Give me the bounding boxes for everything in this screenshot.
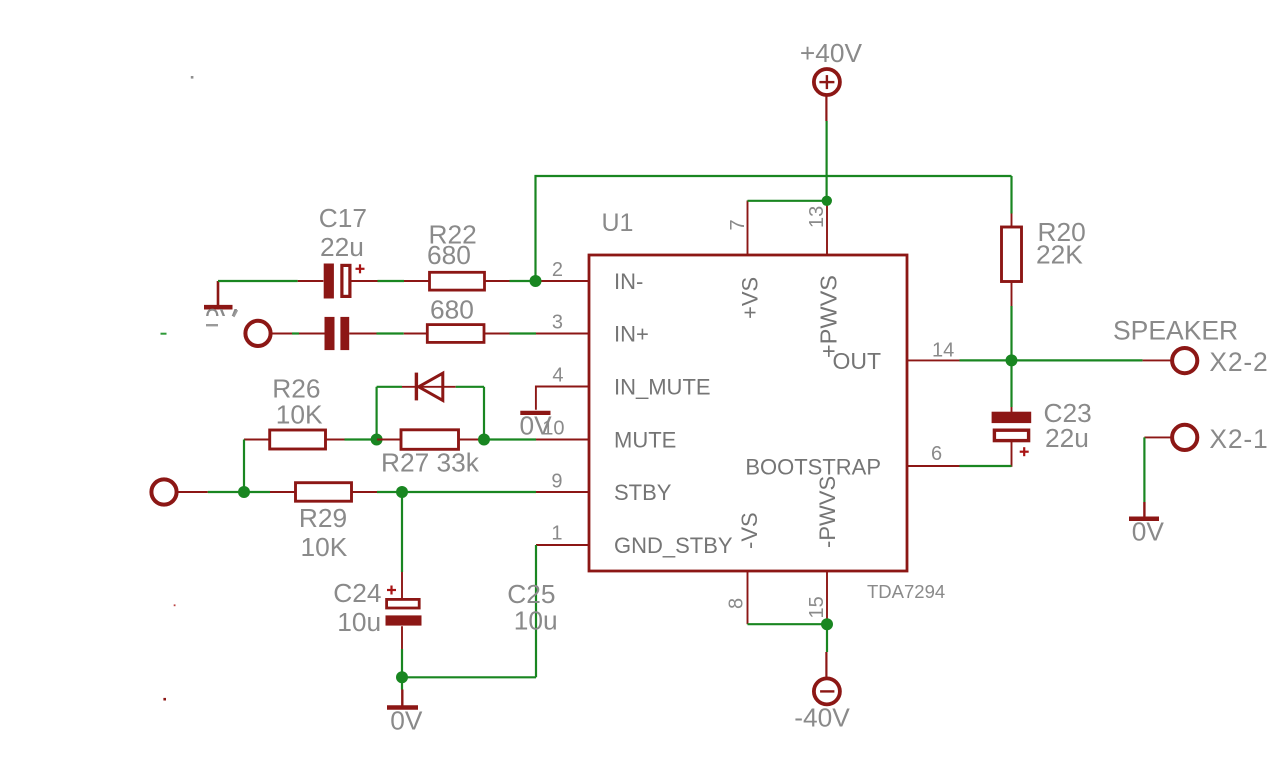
op-amp U1 TDA7294 body <box>589 255 907 571</box>
svg-text:X2-2: X2-2 <box>1209 347 1268 377</box>
pin 10 MUTE stub <box>536 439 589 441</box>
connector label X2-1 <box>1209 424 1268 454</box>
wire R26 to mute node (green) <box>345 438 378 440</box>
capacitor C23 22u (polarized) <box>992 412 1032 457</box>
R22 name label <box>429 219 477 249</box>
wire C23 top lead (maroon) <box>1011 407 1013 412</box>
svg-text:10K: 10K <box>276 399 323 429</box>
resistor R26 10K <box>270 430 326 449</box>
wire pad to stby node (green) <box>208 491 244 493</box>
pin number 9 <box>551 471 562 493</box>
svg-text:680: 680 <box>427 240 471 270</box>
wire diode top right (green) <box>456 386 484 388</box>
pin 7 +VS stub <box>747 201 749 256</box>
pin 1 GND_STBY stub <box>536 544 589 546</box>
svg-text:+VS: +VS <box>738 277 763 319</box>
connector pad (standby input) <box>151 479 176 504</box>
svg-text:IN-: IN- <box>614 269 643 294</box>
R27 name and value label <box>381 447 480 477</box>
dust speck green dash near pad <box>161 333 167 335</box>
C25 name label <box>507 579 555 609</box>
pin name -VS (rotated) <box>737 512 762 549</box>
wire C24 branch down (green) <box>401 492 403 572</box>
svg-text:10u: 10u <box>337 607 381 637</box>
svg-text:14: 14 <box>932 340 954 362</box>
wire stby node to R29 (green) <box>244 491 270 493</box>
svg-text:0V: 0V <box>1132 517 1165 547</box>
pin 4 IN_MUTE stub <box>536 386 589 388</box>
svg-text:680: 680 <box>430 295 474 325</box>
R29 value label <box>301 532 348 562</box>
pin number 8 (rotated) <box>726 598 748 609</box>
resistor R20 22K <box>1002 227 1022 282</box>
wire C25 vertical (green) <box>535 545 537 677</box>
wire X2-1 gnd stub (maroon) <box>1143 502 1145 517</box>
wire out node to C23 (green) <box>1010 360 1012 407</box>
R26 name label <box>272 374 320 404</box>
wire C17 right lead (maroon) <box>352 280 378 282</box>
R26 value label <box>276 399 323 429</box>
wire C25 bottom horizontal (green) <box>402 676 536 678</box>
resistor R22 680 <box>430 272 485 290</box>
svg-text:C17: C17 <box>319 203 367 233</box>
dust speck maroon dot <box>163 698 166 701</box>
svg-text:+PWVS: +PWVS <box>816 275 842 358</box>
pin 13 +PWVS stub <box>826 201 828 256</box>
svg-text:10K: 10K <box>301 532 348 562</box>
wire C23 to pin6 (green) <box>960 465 1012 467</box>
net label 0V (C24 ground) <box>390 706 423 736</box>
wire C17 left lead (maroon) <box>298 280 324 282</box>
pin name MUTE <box>614 428 676 453</box>
svg-text:15: 15 <box>806 596 828 618</box>
svg-text:IN_MUTE: IN_MUTE <box>614 375 711 400</box>
junction -40V node <box>821 618 833 630</box>
wire C24 to gnd node (green) <box>401 649 403 677</box>
wire +40V vertical (green) <box>825 121 827 201</box>
wire X2-2 lead (maroon) <box>1143 359 1171 361</box>
C25 value label <box>514 606 558 636</box>
U1 reference label <box>602 209 634 237</box>
pin name +PWVS (rotated) <box>816 275 842 358</box>
wire pad lead (maroon) <box>178 491 208 493</box>
capacitor C17 22u (polarized) <box>324 264 365 299</box>
svg-text:IN+: IN+ <box>614 322 649 347</box>
C17 value label <box>320 232 364 262</box>
svg-text:22u: 22u <box>1045 423 1089 453</box>
pin 8 -VS stub <box>747 571 749 624</box>
wire pin8 to pin15 jumper (green) <box>748 623 828 625</box>
wire +40V lead (maroon) <box>825 97 827 122</box>
wire -40V lead (maroon) <box>825 652 827 677</box>
junction stby node left <box>238 486 250 498</box>
svg-text:SPEAKER: SPEAKER <box>1113 316 1238 346</box>
wire R27 left lead (maroon) <box>377 439 401 441</box>
wire feedback top (IN- to R20 top) <box>536 176 1012 281</box>
wire speck (green) <box>292 332 299 334</box>
pin name IN- <box>614 269 643 294</box>
pin 2 IN- stub <box>536 280 589 282</box>
R29 name label <box>299 503 347 533</box>
pin number 6 <box>931 443 942 465</box>
svg-text:X2-1: X2-1 <box>1209 424 1268 454</box>
pin number 10 <box>542 418 564 440</box>
wire R20 bottom lead (maroon) <box>1011 282 1013 307</box>
svg-text:0V: 0V <box>520 411 553 441</box>
junction IN- node <box>530 275 542 287</box>
wire R29 right lead (maroon) <box>352 491 377 493</box>
svg-text:2: 2 <box>552 259 563 281</box>
R22 value label <box>427 240 471 270</box>
resistor R27 33k <box>401 430 459 450</box>
svg-text:0V: 0V <box>390 706 423 736</box>
connector pad X2-1 <box>1172 425 1197 450</box>
wire diode branch right vertical (green) <box>483 387 485 440</box>
U1 value label TDA7294 <box>867 581 945 602</box>
junction at pin 13 / +40V <box>822 196 832 206</box>
net label 0V (pin4 ground) <box>520 411 553 441</box>
wire R26 corner down (green) <box>243 440 245 493</box>
svg-text:STBY: STBY <box>614 480 672 505</box>
pin number 13 (rotated) <box>806 206 828 228</box>
pin name IN+ <box>614 322 649 347</box>
wire pin4 corner (maroon) <box>536 387 589 410</box>
diode D1 <box>402 373 456 401</box>
pin 6 BOOTSTRAP stub <box>907 465 960 467</box>
wire diode branch left vertical (green) <box>376 387 378 440</box>
svg-text:TDA7294: TDA7294 <box>867 581 945 602</box>
connector pad input (IN+) <box>245 321 270 346</box>
wire pin14 to out node (green) <box>960 359 1012 361</box>
wire cap right lead (maroon) <box>349 333 376 335</box>
wire C17 to R22 (green) <box>378 280 405 282</box>
680 value label <box>430 295 474 325</box>
pin name +VS (rotated) <box>738 277 763 319</box>
svg-text:22K: 22K <box>1036 240 1083 270</box>
svg-text:+40V: +40V <box>800 38 863 68</box>
net label -40V <box>794 703 850 733</box>
resistor R29 10K <box>296 483 352 502</box>
wire out node to X2-2 (green) <box>1012 359 1143 361</box>
ground symbol (C24, 0V) <box>387 705 418 710</box>
wire R26 right lead (maroon) <box>326 439 345 441</box>
wire R27 right lead (maroon) <box>459 439 485 441</box>
C23 value label <box>1045 423 1089 453</box>
wire R22 right lead (maroon) <box>485 280 510 282</box>
svg-text:R27 33k: R27 33k <box>381 447 480 477</box>
svg-text:-VS: -VS <box>737 512 762 549</box>
svg-text:MUTE: MUTE <box>614 428 676 453</box>
wire 680 to pin3 (green) <box>510 332 537 334</box>
pin number 2 <box>552 259 563 281</box>
pin 9 STBY stub <box>536 491 589 493</box>
ground symbol (input, 0V) <box>204 281 233 307</box>
svg-text:13: 13 <box>806 206 828 228</box>
svg-text:7: 7 <box>727 219 749 230</box>
pin name BOOTSTRAP <box>745 455 881 480</box>
pin number 7 (rotated) <box>727 219 749 230</box>
svg-text:6: 6 <box>931 443 942 465</box>
R20 name label <box>1038 217 1086 247</box>
svg-text:3: 3 <box>552 312 563 334</box>
wire gnd stub lower (maroon) <box>401 690 403 706</box>
svg-text:1: 1 <box>551 523 562 545</box>
pin 14 OUT stub <box>907 359 960 361</box>
wire X2-1 down (green) <box>1143 437 1145 502</box>
R20 value label <box>1036 240 1083 270</box>
dust speck red dot lower left <box>174 604 176 606</box>
connector label X2-2 <box>1209 347 1268 377</box>
pin 15 -PWVS stub <box>826 571 828 624</box>
svg-text:4: 4 <box>552 365 563 387</box>
wire 680 right lead (maroon) <box>484 333 510 335</box>
wire diode top left (green) <box>377 386 402 388</box>
svg-text:U1: U1 <box>602 209 634 237</box>
C24 name label <box>333 578 381 608</box>
svg-text:22u: 22u <box>320 232 364 262</box>
capacitor (input coupling, unpolarized) <box>325 317 350 350</box>
pin name GND_STBY <box>614 533 733 558</box>
wire cap to 680 (green) <box>377 332 404 334</box>
wire C24 top lead (maroon) <box>401 572 403 600</box>
junction gnd node <box>396 671 408 683</box>
ground symbol (X2-1, 0V) <box>1129 517 1159 522</box>
svg-text:C25: C25 <box>507 579 555 609</box>
pin name IN_MUTE <box>614 375 711 400</box>
wire C24 bottom lead (maroon) <box>401 626 403 649</box>
wire top to R20 (green) <box>1010 176 1012 214</box>
wire X2-1 lead (maroon) <box>1144 436 1170 438</box>
wire mute node to pin10 (green) <box>484 438 536 440</box>
wire R29 left lead (maroon) <box>270 491 296 493</box>
wire 680 left lead (maroon) <box>404 333 428 335</box>
resistor 680 (second) <box>427 325 484 343</box>
wire R26 left lead (maroon) <box>244 439 270 441</box>
wire R20 top lead (maroon) <box>1011 214 1013 228</box>
C23 name label <box>1044 398 1092 428</box>
wire R20 to out node (green) <box>1010 306 1012 360</box>
svg-text:10u: 10u <box>514 606 558 636</box>
wire C24 node to pin9 (green) <box>402 491 536 493</box>
net label 0V (mostly erased fragments) <box>198 303 242 333</box>
power -40V supply symbol <box>814 678 840 704</box>
junction mute node left <box>371 434 383 446</box>
pin name -PWVS (rotated) <box>815 476 840 548</box>
pin name STBY <box>614 480 672 505</box>
wire R22 left lead (maroon) <box>404 280 430 282</box>
pin number 1 <box>551 523 562 545</box>
pin number 3 <box>552 312 563 334</box>
net label +40V <box>800 38 863 68</box>
wire pad to input cap (maroon) <box>272 333 324 335</box>
junction mute node right <box>478 434 490 446</box>
svg-text:9: 9 <box>551 471 562 493</box>
pin 3 IN+ stub <box>536 333 589 335</box>
junction out node <box>1006 354 1018 366</box>
C17 name label <box>319 203 367 233</box>
C24 value label <box>337 607 381 637</box>
ground symbol (pin4, 0V) <box>520 411 550 415</box>
wire C23 bottom lead (maroon) <box>1011 441 1013 467</box>
svg-text:GND_STBY: GND_STBY <box>614 533 733 558</box>
svg-text:BOOTSTRAP: BOOTSTRAP <box>745 455 881 480</box>
power +40V supply symbol <box>814 69 840 95</box>
wire pin7 to pin13 jumper <box>748 200 828 202</box>
pin number 15 (rotated) <box>806 596 828 618</box>
pin name OUT <box>832 348 881 374</box>
connector pad X2-2 <box>1172 348 1197 373</box>
capacitor C24 10u (polarized) <box>386 586 422 626</box>
pin number 4 <box>552 365 563 387</box>
svg-text:-PWVS: -PWVS <box>815 476 840 548</box>
svg-text:R29: R29 <box>299 503 347 533</box>
svg-text:8: 8 <box>726 598 748 609</box>
svg-text:C24: C24 <box>333 578 381 608</box>
dust speck gray dot top <box>191 76 194 79</box>
wire R22 to IN- node (green) <box>510 280 537 282</box>
wire input gnd to C17 (green) <box>218 280 298 282</box>
wire R29 to C24 node (green) <box>377 491 402 493</box>
svg-text:-40V: -40V <box>794 703 850 733</box>
net label 0V (X2-1 ground) <box>1132 517 1165 547</box>
net label SPEAKER <box>1113 316 1238 346</box>
junction C24 node <box>396 486 408 498</box>
pin number 14 <box>932 340 954 362</box>
wire gnd stub (maroon) <box>401 677 403 689</box>
wire -40V vertical (green) <box>826 624 828 652</box>
